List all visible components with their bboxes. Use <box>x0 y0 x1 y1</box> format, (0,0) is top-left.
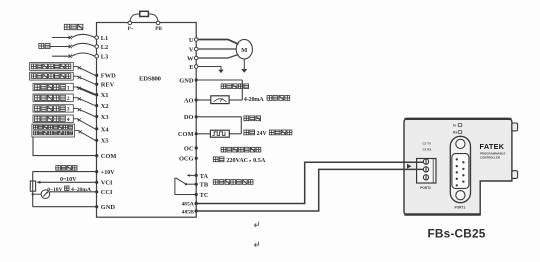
terminal L2 <box>95 45 99 49</box>
svg-text:REV: REV <box>101 82 115 89</box>
inverter U1 EDS800 box <box>97 23 197 218</box>
input command box FWD <box>30 63 74 71</box>
wire GND row <box>33 206 95 208</box>
module tab 1 <box>512 123 518 131</box>
svg-text:CONTROLLER: CONTROLLER <box>480 156 501 160</box>
terminal X3 <box>95 115 98 118</box>
junction dot <box>32 193 34 195</box>
label 输出 <box>244 130 255 135</box>
terminal X2 <box>95 104 98 107</box>
wire/switch to X2 <box>73 97 77 99</box>
terminal REV <box>95 83 98 86</box>
svg-text:GND: GND <box>101 204 116 211</box>
svg-text:4: 4 <box>67 117 70 123</box>
ground E <box>218 70 223 74</box>
svg-text:3: 3 <box>67 107 70 113</box>
PORT2 screw 1 <box>423 159 428 164</box>
wire riser GND-AO <box>241 80 243 100</box>
svg-text:L1: L1 <box>101 35 108 42</box>
terminal CCI <box>95 190 98 193</box>
svg-text:C2 TX: C2 TX <box>423 141 432 145</box>
terminal E <box>194 65 198 69</box>
wire resistor to PB <box>148 14 158 21</box>
svg-text:CCI: CCI <box>101 189 113 196</box>
svg-text:M: M <box>241 47 248 54</box>
label box text X3 <box>35 106 66 111</box>
wire power lead L3 <box>52 55 70 57</box>
relay contact TA arrow <box>188 174 195 176</box>
svg-text:Rx: Rx <box>453 130 457 134</box>
wire motor to ground <box>243 59 245 69</box>
wire power lead L2 <box>50 46 70 48</box>
wire COM to pulse meter <box>198 133 211 135</box>
label power source 电源 <box>39 44 50 49</box>
paragraph mark 2 <box>254 242 258 247</box>
label breaker 断路器 <box>64 24 83 29</box>
DB9 pin R2 <box>462 168 464 170</box>
terminal VCI <box>95 181 98 184</box>
svg-text:TA: TA <box>200 173 209 180</box>
potentiometer RP <box>30 181 35 191</box>
input command box X5 two-line <box>32 124 75 137</box>
wire/switch to REV <box>73 75 77 77</box>
DB9 pin L5 <box>456 184 458 186</box>
terminal X1 <box>95 93 98 96</box>
wire common bus to COM <box>33 137 95 156</box>
DB9 bottom screw <box>456 191 465 200</box>
input command box X1 <box>33 83 73 90</box>
terminal X4 <box>95 127 98 130</box>
wire VCI with wiper arrow <box>39 181 96 183</box>
svg-text:PORT2: PORT2 <box>420 186 431 190</box>
wire +10V <box>33 171 95 173</box>
module top edge thick <box>405 118 512 120</box>
svg-text:DO: DO <box>184 114 194 121</box>
relay contact TB <box>186 183 195 185</box>
svg-text:X1: X1 <box>101 92 109 99</box>
wire DO to riser <box>198 116 242 118</box>
svg-text:OCG: OCG <box>179 156 194 163</box>
svg-text:PORT1: PORT1 <box>455 205 466 209</box>
wire V to motor <box>198 48 236 50</box>
wire/switch to X3 <box>73 107 77 109</box>
svg-text:X3: X3 <box>101 114 109 121</box>
DB9 pin L1 <box>456 158 458 160</box>
label box text X5 line1 <box>34 125 73 129</box>
wire/switch to X5 <box>75 130 79 132</box>
label or 或 <box>65 186 69 190</box>
DB9 pin L2 <box>456 165 458 167</box>
wire GND to riser <box>198 79 243 81</box>
current source symbol <box>41 190 50 199</box>
svg-text:VCI: VCI <box>101 180 113 187</box>
input command box X4 <box>33 115 73 123</box>
wire W to motor <box>198 54 238 58</box>
relay common to TC <box>175 178 195 194</box>
relay blade <box>177 178 187 184</box>
svg-text:U: U <box>189 37 194 44</box>
terminal OCG <box>195 157 198 160</box>
wire E to ground <box>198 67 221 70</box>
svg-text:COM: COM <box>178 131 194 138</box>
svg-text:X4: X4 <box>101 126 110 133</box>
svg-text:24V: 24V <box>257 131 268 137</box>
wire/switch to X4 <box>73 118 77 120</box>
terminal TB <box>195 183 198 186</box>
label 脉冲信号 <box>269 130 292 135</box>
breaker contact L3 <box>69 55 72 58</box>
arrow into PORT2 <box>407 164 412 169</box>
DB9 top screw <box>456 139 465 148</box>
svg-text:X2: X2 <box>101 103 109 110</box>
wire 485B to PORT2 <box>196 169 423 211</box>
ammeter box <box>211 96 229 104</box>
pulse meter box <box>210 130 229 137</box>
label box text X4 <box>35 116 66 121</box>
label fault relay 故障继电器输出 <box>213 180 253 185</box>
wire meter to riser <box>229 99 242 101</box>
label 最大 <box>213 157 224 162</box>
PORT1 DB9 connector <box>450 136 470 202</box>
wire 485A to PORT2 <box>196 162 423 203</box>
breaker contact L1 <box>69 36 72 39</box>
wire/switch to X1 <box>73 86 77 88</box>
terminal TA <box>195 174 198 177</box>
module tab 2 <box>512 171 518 179</box>
terminal TC <box>195 193 198 196</box>
DB9 body <box>452 154 469 189</box>
input command box X2 <box>33 94 73 101</box>
label frequency meter 频率表 <box>244 116 261 121</box>
terminal W <box>194 56 198 60</box>
terminal V <box>194 47 198 51</box>
resistor RB braking <box>140 11 149 16</box>
svg-text:tx: tx <box>453 123 456 127</box>
terminal GND right <box>195 78 198 81</box>
wire pulse meter to riser <box>229 133 241 135</box>
DB9 pin L4 <box>456 178 458 180</box>
label box text REV <box>31 74 71 79</box>
FATEK FBs-CB25 module outline <box>404 118 512 214</box>
svg-text:COM: COM <box>101 153 117 160</box>
terminal U <box>194 38 198 42</box>
wire/switch to FWD <box>73 66 77 68</box>
svg-text:1: 1 <box>67 85 70 91</box>
wire power lead L1 <box>52 37 70 39</box>
svg-text:485B: 485B <box>182 209 194 215</box>
svg-text:FWD: FWD <box>101 73 116 80</box>
svg-text:OC: OC <box>184 145 194 152</box>
svg-text:2: 2 <box>67 96 70 102</box>
terminal X5 <box>95 139 98 142</box>
label box text X2 <box>35 95 66 100</box>
PORT2 screw 2 <box>423 167 428 172</box>
DB9 pin R3 <box>462 174 464 176</box>
terminal GND left <box>95 205 98 208</box>
terminal DO <box>195 115 198 118</box>
paragraph mark 1 <box>254 222 258 227</box>
DB9 pin R4 <box>462 180 464 182</box>
svg-text:TB: TB <box>200 182 209 189</box>
label speed command 速度指令 <box>56 166 77 171</box>
terminal COM right <box>195 132 198 135</box>
svg-text:AO: AO <box>184 97 194 104</box>
terminal L1 <box>95 36 99 40</box>
terminal PB <box>156 21 160 25</box>
svg-text:P–: P– <box>128 26 134 32</box>
PORT2 terminal block <box>417 159 436 184</box>
wire CCI <box>50 191 95 193</box>
svg-text:TC: TC <box>200 192 209 199</box>
svg-text:PB: PB <box>155 26 162 32</box>
ground motor <box>241 69 247 73</box>
module bottom edge thick <box>405 213 481 216</box>
terminal COM <box>95 154 98 157</box>
wire analog bus <box>32 172 34 207</box>
svg-text:FBs-CB25: FBs-CB25 <box>428 227 486 241</box>
breaker contact L2 <box>69 45 72 48</box>
svg-text:4-20mA: 4-20mA <box>244 96 264 103</box>
svg-text:GND: GND <box>179 77 194 84</box>
svg-text:V: V <box>189 46 194 53</box>
input command box REV <box>30 72 74 80</box>
wire AO to meter <box>198 99 211 101</box>
svg-text:L2: L2 <box>101 44 108 51</box>
label box text X1 <box>35 85 66 90</box>
label open collector 开路集电极输出 <box>221 147 261 152</box>
label box text X5 line2 <box>34 131 73 135</box>
svg-text:EDS800: EDS800 <box>139 76 162 83</box>
svg-text:485A: 485A <box>181 202 193 208</box>
terminal FWD <box>95 74 98 77</box>
terminal OC <box>195 146 198 149</box>
PORT2 screw 3 <box>423 175 428 180</box>
svg-text:+10V: +10V <box>101 170 115 176</box>
input command box X3 <box>33 105 73 112</box>
svg-text:FATEK: FATEK <box>480 142 505 151</box>
svg-text:C2 RX: C2 RX <box>423 147 432 151</box>
wire riser DO-COM <box>240 117 242 134</box>
wire U to motor <box>198 40 238 45</box>
motor M <box>236 39 252 59</box>
terminal AO <box>195 98 198 101</box>
svg-text:L3: L3 <box>101 54 108 61</box>
DB9 pin R1 <box>462 161 464 163</box>
terminal +10V <box>95 170 98 173</box>
terminal P+ <box>128 21 132 25</box>
svg-text:X5: X5 <box>101 138 109 145</box>
terminal L3 <box>95 54 99 58</box>
wire top arc P+ to resistor <box>130 14 140 21</box>
label 电流信号 <box>267 96 290 101</box>
label DC ammeter 直流电流表 <box>221 84 249 89</box>
DB9 pin L3 <box>456 171 458 173</box>
wire source to bus <box>33 193 41 195</box>
svg-text:W: W <box>187 55 194 62</box>
label box text FWD <box>31 64 71 69</box>
svg-text:220VAC: 220VAC <box>226 157 248 164</box>
svg-text:0.5A: 0.5A <box>253 157 266 164</box>
svg-text:E: E <box>189 64 193 71</box>
